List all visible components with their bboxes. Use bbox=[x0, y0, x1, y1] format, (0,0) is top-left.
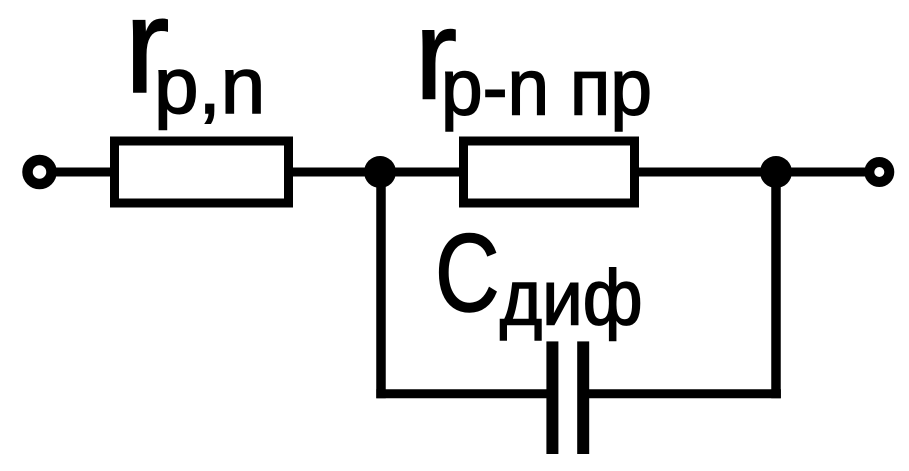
terminal: right open circle bbox=[869, 162, 889, 182]
wire: right vertical drop bbox=[771, 172, 781, 398]
svg-text:диф: диф bbox=[500, 254, 643, 342]
wire: bottom horizontal left segment bbox=[376, 389, 552, 398]
svg-text:C: C bbox=[435, 212, 500, 335]
terminal: left open circle bbox=[28, 160, 52, 184]
wire: main horizontal left segment bbox=[48, 168, 118, 177]
wire: between R2 and right terminal bbox=[636, 168, 876, 177]
wire: between R1 and R2 bbox=[290, 168, 462, 177]
resistor R1 (r_p,n) bbox=[115, 141, 289, 203]
node: right junction dot bbox=[760, 156, 792, 188]
svg-text:p,n: p,n bbox=[154, 41, 265, 130]
wire: bottom horizontal right segment bbox=[583, 389, 781, 398]
svg-text:p-n пр: p-n пр bbox=[441, 43, 652, 132]
node: left junction dot bbox=[364, 156, 396, 188]
wire: left vertical drop bbox=[376, 172, 386, 398]
capacitor C_dif right plate bbox=[577, 341, 589, 454]
resistor R2 (r_p-n pr) bbox=[464, 141, 635, 203]
capacitor C_dif left plate bbox=[546, 341, 558, 454]
